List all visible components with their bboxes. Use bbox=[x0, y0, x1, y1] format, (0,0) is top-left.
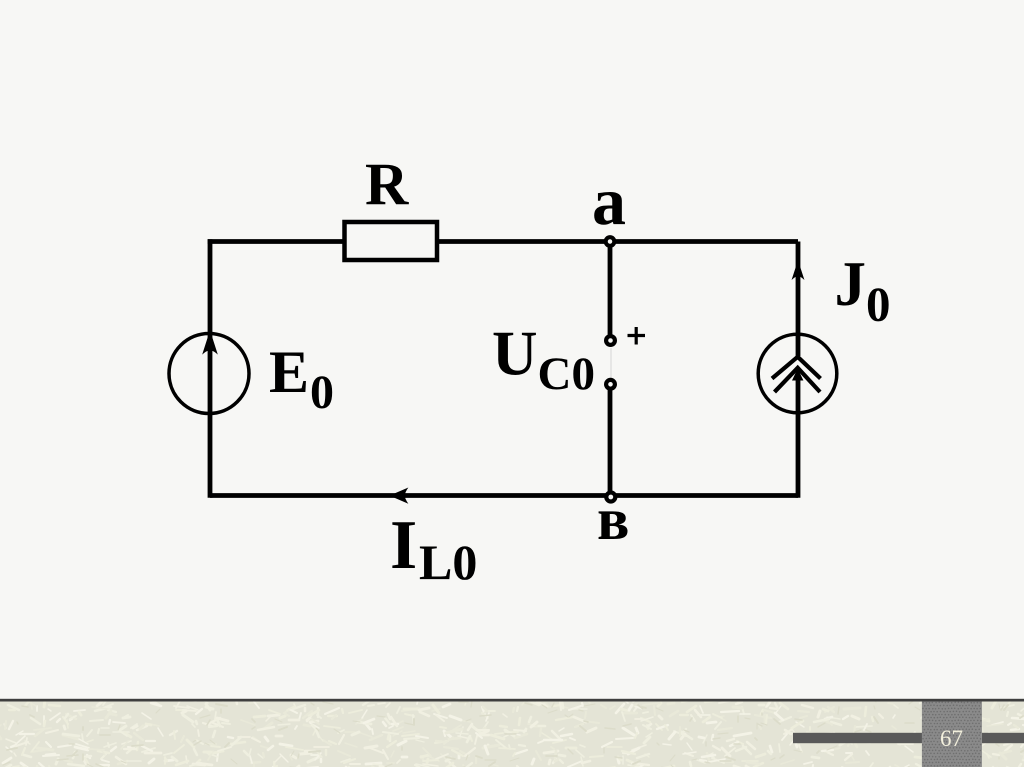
node b bbox=[606, 493, 615, 502]
page number box bbox=[922, 702, 982, 767]
node a bbox=[606, 237, 615, 246]
plus sign bbox=[628, 327, 646, 345]
svg-text:67: 67 bbox=[940, 726, 963, 751]
voltage source E0 circle bbox=[169, 334, 249, 414]
wire left side bbox=[208, 239, 213, 498]
svg-text:C0: C0 bbox=[538, 348, 595, 400]
J0 arrowhead bbox=[792, 369, 803, 381]
faint gap hairline bbox=[610, 348, 612, 380]
resistor R bbox=[345, 222, 438, 260]
svg-text:J: J bbox=[835, 249, 867, 319]
current arrow IL0 on bottom wire bbox=[392, 489, 407, 502]
current source J0 circle bbox=[758, 334, 837, 413]
wire right side bbox=[796, 242, 801, 498]
svg-text:a: a bbox=[592, 163, 626, 239]
arrow up on right wire bbox=[793, 263, 803, 278]
svg-text:I: I bbox=[390, 507, 417, 584]
capacitor branch lower wire bbox=[608, 390, 613, 495]
E0 arrow shaft bbox=[208, 334, 213, 415]
footer texture band bbox=[0, 702, 1024, 767]
J0 internal bottom lead bbox=[796, 378, 801, 415]
J0 chevron 1 bbox=[772, 357, 821, 379]
capacitor top terminal bbox=[606, 336, 615, 345]
svg-text:E: E bbox=[269, 339, 309, 405]
E0 arrowhead bbox=[204, 333, 217, 353]
J0 chevron 2 bbox=[775, 368, 821, 392]
svg-text:L0: L0 bbox=[419, 534, 477, 590]
svg-text:0: 0 bbox=[866, 277, 891, 332]
wire top side bbox=[208, 239, 798, 244]
svg-text:R: R bbox=[365, 152, 409, 218]
capacitor bottom terminal bbox=[606, 380, 615, 389]
footer right dark bar bbox=[982, 733, 1024, 743]
footer left dark bar bbox=[793, 733, 922, 743]
svg-text:U: U bbox=[492, 319, 538, 389]
J0 internal top lead bbox=[796, 333, 801, 357]
wire bottom side bbox=[210, 493, 798, 498]
capacitor branch upper wire bbox=[608, 244, 613, 335]
svg-text:в: в bbox=[597, 486, 629, 552]
svg-text:0: 0 bbox=[310, 366, 334, 419]
footer separator line bbox=[0, 699, 1024, 702]
